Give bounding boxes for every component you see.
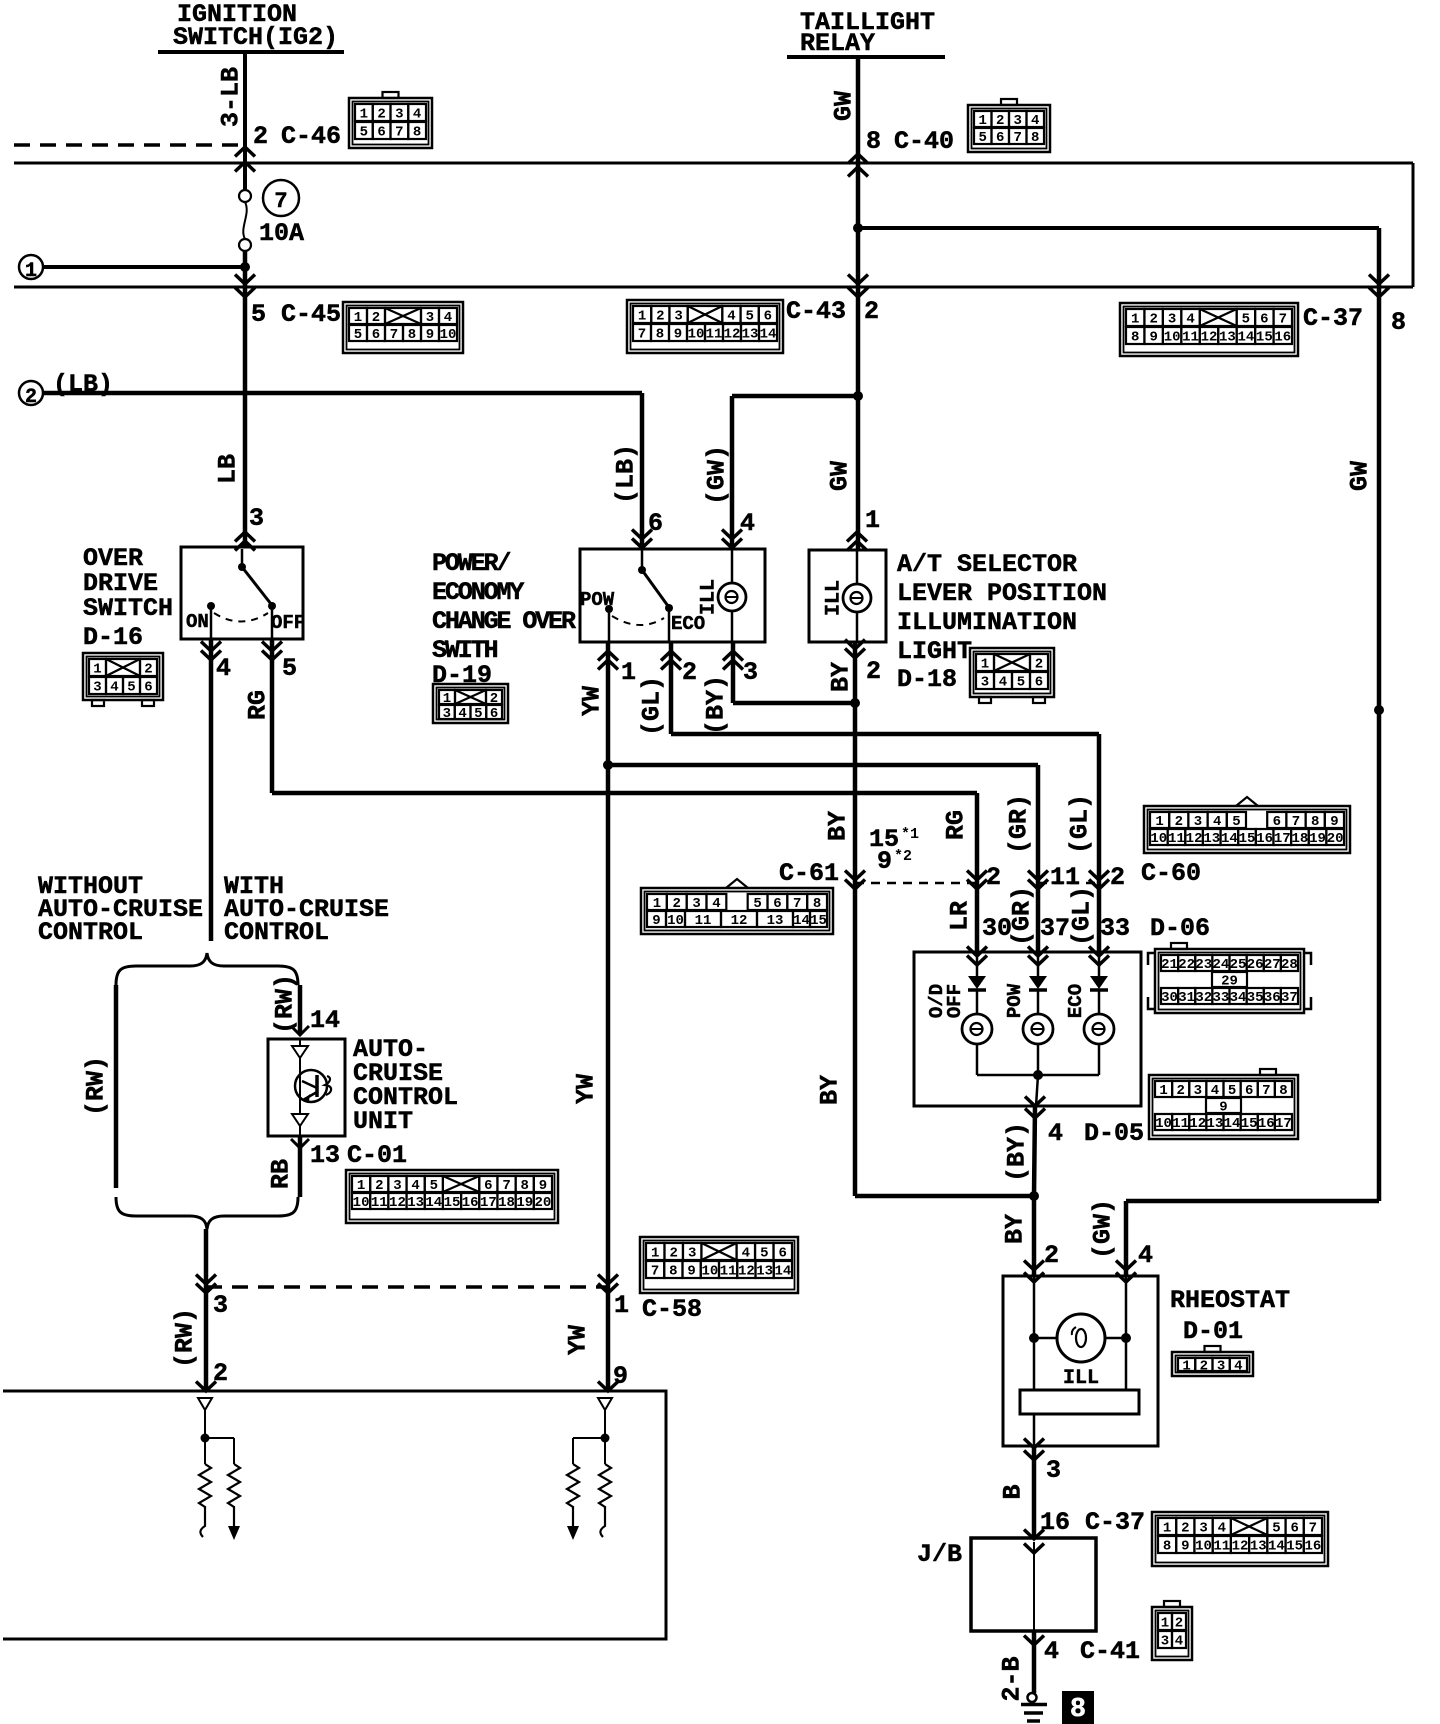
svg-text:POW: POW — [580, 589, 615, 611]
svg-text:POWER/: POWER/ — [432, 549, 511, 578]
svg-text:D-16: D-16 — [83, 623, 143, 652]
svg-text:GW: GW — [830, 91, 859, 121]
svg-text:7: 7 — [274, 189, 287, 214]
svg-text:16: 16 — [1304, 1539, 1321, 1555]
svg-text:3: 3 — [981, 675, 989, 691]
svg-text:3: 3 — [395, 107, 403, 123]
svg-text:YW: YW — [572, 1074, 601, 1104]
svg-text:4: 4 — [444, 310, 452, 326]
svg-text:4: 4 — [1048, 1119, 1063, 1148]
svg-text:2: 2 — [1176, 1083, 1184, 1099]
svg-text:30: 30 — [1161, 990, 1178, 1006]
svg-text:1: 1 — [1155, 814, 1163, 830]
svg-text:13: 13 — [1219, 330, 1236, 346]
svg-text:17: 17 — [1275, 1116, 1292, 1132]
svg-text:25: 25 — [1230, 957, 1247, 973]
svg-text:6: 6 — [764, 309, 772, 325]
svg-text:(LB): (LB) — [612, 444, 641, 504]
svg-text:2: 2 — [670, 1246, 678, 1262]
svg-text:CONTROL: CONTROL — [38, 918, 143, 947]
svg-text:4: 4 — [216, 654, 231, 683]
svg-text:3: 3 — [93, 680, 101, 696]
svg-text:13: 13 — [1250, 1539, 1267, 1555]
svg-text:35: 35 — [1247, 990, 1264, 1006]
svg-text:4: 4 — [1234, 1359, 1242, 1375]
svg-text:1: 1 — [865, 506, 880, 535]
svg-text:14: 14 — [774, 1264, 791, 1280]
svg-text:6: 6 — [377, 125, 385, 141]
svg-text:6: 6 — [490, 706, 498, 722]
svg-text:3: 3 — [443, 706, 451, 722]
svg-text:5: 5 — [360, 125, 368, 141]
svg-text:27: 27 — [1264, 957, 1281, 973]
svg-text:12: 12 — [1201, 330, 1218, 346]
svg-text:8: 8 — [1131, 330, 1139, 346]
svg-text:8: 8 — [408, 327, 416, 343]
svg-text:8: 8 — [1311, 814, 1319, 830]
svg-text:2: 2 — [144, 662, 152, 678]
svg-text:11: 11 — [1213, 1539, 1230, 1555]
svg-text:(RW): (RW) — [271, 974, 300, 1034]
svg-text:4: 4 — [1186, 312, 1194, 328]
svg-text:ILL: ILL — [823, 580, 846, 616]
svg-text:2: 2 — [25, 386, 37, 409]
svg-text:(GW): (GW) — [703, 445, 732, 505]
svg-text:YW: YW — [564, 1325, 593, 1355]
svg-text:3: 3 — [674, 309, 682, 325]
svg-text:10A: 10A — [259, 219, 304, 248]
svg-text:15: 15 — [1241, 1116, 1258, 1132]
svg-text:7: 7 — [1262, 1083, 1270, 1099]
svg-text:3: 3 — [1046, 1456, 1061, 1485]
svg-text:2: 2 — [253, 122, 268, 151]
svg-text:10: 10 — [1195, 1539, 1212, 1555]
svg-text:32: 32 — [1195, 990, 1212, 1006]
svg-text:1: 1 — [651, 1246, 659, 1262]
svg-text:LIGHT: LIGHT — [897, 637, 972, 666]
svg-text:14: 14 — [793, 913, 810, 929]
svg-text:BY: BY — [1001, 1214, 1030, 1244]
svg-text:4: 4 — [1044, 1637, 1059, 1666]
svg-text:SWITCH: SWITCH — [83, 594, 173, 623]
svg-text:4: 4 — [1175, 1634, 1183, 1650]
svg-text:19: 19 — [1309, 831, 1326, 847]
svg-text:5: 5 — [127, 680, 135, 696]
svg-text:13: 13 — [1207, 1116, 1224, 1132]
svg-text:3: 3 — [393, 1178, 401, 1194]
svg-text:ON: ON — [186, 611, 209, 633]
svg-text:15: 15 — [1256, 330, 1273, 346]
svg-text:7: 7 — [793, 896, 801, 912]
svg-text:(RW): (RW) — [82, 1056, 111, 1116]
svg-text:15: 15 — [444, 1195, 461, 1211]
svg-text:3: 3 — [1194, 1083, 1202, 1099]
svg-text:14: 14 — [1221, 831, 1238, 847]
svg-text:1: 1 — [1163, 1521, 1171, 1537]
svg-text:2: 2 — [656, 309, 664, 325]
svg-text:6: 6 — [779, 1246, 787, 1262]
svg-text:5: 5 — [354, 327, 362, 343]
svg-text:(RW): (RW) — [171, 1308, 200, 1368]
svg-text:5: 5 — [1272, 1521, 1280, 1537]
svg-text:9: 9 — [1181, 1539, 1189, 1555]
svg-text:6: 6 — [1260, 312, 1268, 328]
svg-text:16: 16 — [1274, 330, 1291, 346]
svg-text:9: 9 — [877, 847, 892, 876]
svg-text:5: 5 — [745, 309, 753, 325]
svg-text:11: 11 — [695, 913, 712, 929]
svg-text:C-58: C-58 — [642, 1295, 702, 1324]
svg-text:37: 37 — [1040, 914, 1070, 943]
svg-text:8: 8 — [1031, 130, 1039, 146]
svg-text:1: 1 — [1182, 1359, 1190, 1375]
svg-text:5: 5 — [753, 896, 761, 912]
svg-text:15: 15 — [1286, 1539, 1303, 1555]
svg-text:2: 2 — [1110, 863, 1125, 892]
svg-text:(GL): (GL) — [1068, 886, 1097, 946]
svg-text:8: 8 — [813, 896, 821, 912]
svg-text:1: 1 — [653, 896, 661, 912]
svg-text:15: 15 — [810, 913, 827, 929]
svg-text:3: 3 — [743, 658, 758, 687]
svg-text:5: 5 — [474, 706, 482, 722]
svg-text:C-60: C-60 — [1141, 859, 1201, 888]
svg-text:14: 14 — [1237, 330, 1254, 346]
svg-text:5: 5 — [1232, 814, 1240, 830]
svg-text:5: 5 — [1228, 1083, 1236, 1099]
svg-text:C-40: C-40 — [894, 127, 954, 156]
svg-text:6: 6 — [996, 130, 1004, 146]
svg-text:17: 17 — [1274, 831, 1291, 847]
svg-text:1: 1 — [614, 1291, 629, 1320]
svg-text:4: 4 — [1138, 1241, 1153, 1270]
svg-text:23: 23 — [1195, 957, 1212, 973]
svg-text:7: 7 — [1014, 130, 1022, 146]
svg-text:RG: RG — [942, 810, 971, 840]
svg-text:8: 8 — [866, 127, 881, 156]
svg-text:3: 3 — [1161, 1634, 1169, 1650]
svg-text:33: 33 — [1213, 990, 1230, 1006]
svg-text:RB: RB — [267, 1159, 296, 1189]
svg-text:11: 11 — [371, 1195, 388, 1211]
svg-text:7: 7 — [502, 1178, 510, 1194]
svg-text:(BY): (BY) — [1003, 1122, 1032, 1182]
svg-text:10: 10 — [440, 327, 457, 343]
svg-text:28: 28 — [1281, 957, 1298, 973]
svg-text:3: 3 — [213, 1291, 228, 1320]
svg-text:9: 9 — [1149, 330, 1157, 346]
svg-text:12: 12 — [731, 913, 748, 929]
svg-text:16: 16 — [1040, 1508, 1070, 1537]
svg-text:1: 1 — [1161, 1616, 1169, 1632]
svg-text:20: 20 — [535, 1195, 552, 1211]
svg-text:10: 10 — [1164, 330, 1181, 346]
svg-text:8: 8 — [413, 125, 421, 141]
svg-text:ECONOMY: ECONOMY — [432, 578, 524, 607]
svg-text:8: 8 — [1279, 1083, 1287, 1099]
svg-text:C-41: C-41 — [1080, 1637, 1140, 1666]
svg-text:22: 22 — [1178, 957, 1195, 973]
svg-text:8: 8 — [1070, 1695, 1086, 1724]
svg-text:16: 16 — [1258, 1116, 1275, 1132]
svg-text:30: 30 — [982, 914, 1012, 943]
svg-text:ILLUMINATION: ILLUMINATION — [897, 608, 1077, 637]
svg-text:C-37: C-37 — [1303, 304, 1363, 333]
svg-text:2: 2 — [375, 1178, 383, 1194]
svg-text:2: 2 — [673, 896, 681, 912]
svg-text:D-01: D-01 — [1183, 1317, 1243, 1346]
svg-text:1: 1 — [25, 260, 37, 283]
svg-text:18: 18 — [1292, 831, 1309, 847]
svg-text:9: 9 — [674, 327, 682, 343]
svg-text:33: 33 — [1100, 914, 1130, 943]
svg-text:4: 4 — [1211, 1083, 1219, 1099]
svg-text:GW: GW — [1346, 461, 1375, 491]
svg-text:D-19: D-19 — [432, 661, 492, 690]
svg-text:(GL): (GL) — [1066, 794, 1095, 854]
svg-text:5: 5 — [760, 1246, 768, 1262]
svg-text:D-06: D-06 — [1150, 914, 1210, 943]
svg-text:9: 9 — [426, 327, 434, 343]
svg-text:12: 12 — [1232, 1539, 1249, 1555]
svg-text:1: 1 — [357, 1178, 365, 1194]
svg-text:CONTROL: CONTROL — [224, 918, 329, 947]
svg-text:7: 7 — [1279, 312, 1287, 328]
svg-text:3-LB: 3-LB — [217, 67, 246, 127]
svg-text:5: 5 — [282, 654, 297, 683]
svg-text:10: 10 — [701, 1264, 718, 1280]
svg-text:BY: BY — [816, 1075, 845, 1105]
svg-text:3: 3 — [426, 310, 434, 326]
svg-text:(GL): (GL) — [638, 676, 667, 736]
svg-text:ILL: ILL — [1063, 1367, 1099, 1390]
svg-text:1: 1 — [1131, 312, 1139, 328]
svg-text:1: 1 — [93, 662, 101, 678]
svg-text:4: 4 — [712, 896, 720, 912]
svg-text:BY: BY — [824, 811, 853, 841]
svg-text:12: 12 — [1189, 1116, 1206, 1132]
svg-text:B: B — [999, 1484, 1028, 1499]
svg-text:6: 6 — [144, 680, 152, 696]
svg-text:10: 10 — [667, 913, 684, 929]
svg-text:3: 3 — [692, 896, 700, 912]
svg-text:13: 13 — [742, 327, 759, 343]
svg-text:7: 7 — [395, 125, 403, 141]
svg-text:8: 8 — [1163, 1539, 1171, 1555]
svg-text:6: 6 — [1273, 814, 1281, 830]
svg-text:7: 7 — [1309, 1521, 1317, 1537]
svg-text:4: 4 — [458, 706, 466, 722]
svg-text:ILL: ILL — [698, 579, 721, 615]
svg-text:7: 7 — [1292, 814, 1300, 830]
svg-text:C-01: C-01 — [347, 1141, 407, 1170]
svg-text:*2: *2 — [894, 848, 912, 865]
svg-text:2: 2 — [864, 297, 879, 326]
svg-text:5: 5 — [979, 130, 987, 146]
svg-text:14: 14 — [310, 1006, 340, 1035]
svg-text:34: 34 — [1230, 990, 1247, 1006]
svg-text:(GR): (GR) — [1005, 794, 1034, 854]
svg-text:11: 11 — [1168, 831, 1185, 847]
svg-text:5: 5 — [1242, 312, 1250, 328]
svg-text:3: 3 — [249, 504, 264, 533]
svg-text:2: 2 — [1200, 1359, 1208, 1375]
svg-text:31: 31 — [1178, 990, 1195, 1006]
svg-text:10: 10 — [688, 327, 705, 343]
svg-text:4: 4 — [110, 680, 118, 696]
svg-text:2: 2 — [372, 310, 380, 326]
svg-text:10: 10 — [353, 1195, 370, 1211]
svg-text:21: 21 — [1161, 957, 1178, 973]
svg-text:A/T SELECTOR: A/T SELECTOR — [897, 550, 1077, 579]
svg-text:4: 4 — [1218, 1521, 1226, 1537]
svg-text:J/B: J/B — [917, 1540, 962, 1569]
svg-text:LB: LB — [214, 454, 243, 484]
svg-text:12: 12 — [724, 327, 741, 343]
svg-text:3: 3 — [1199, 1521, 1207, 1537]
svg-text:24: 24 — [1213, 957, 1230, 973]
svg-text:6: 6 — [484, 1178, 492, 1194]
svg-text:6: 6 — [1035, 675, 1043, 691]
svg-text:5: 5 — [430, 1178, 438, 1194]
svg-text:CHANGE OVER: CHANGE OVER — [432, 607, 576, 636]
svg-text:GW: GW — [826, 461, 855, 491]
svg-text:11: 11 — [1172, 1116, 1189, 1132]
svg-text:18: 18 — [498, 1195, 515, 1211]
svg-text:SWITCH(IG2): SWITCH(IG2) — [173, 23, 338, 52]
svg-text:C-43: C-43 — [786, 297, 846, 326]
svg-text:6: 6 — [773, 896, 781, 912]
svg-text:C-46: C-46 — [281, 122, 341, 151]
svg-text:20: 20 — [1327, 831, 1344, 847]
svg-text:1: 1 — [981, 657, 989, 673]
svg-text:1: 1 — [1159, 1083, 1167, 1099]
svg-text:14: 14 — [425, 1195, 442, 1211]
svg-text:8: 8 — [669, 1264, 677, 1280]
svg-text:POW: POW — [1004, 983, 1026, 1018]
svg-text:4: 4 — [999, 675, 1007, 691]
svg-text:2: 2 — [866, 657, 881, 686]
svg-text:12: 12 — [738, 1264, 755, 1280]
svg-text:15: 15 — [1239, 831, 1256, 847]
svg-text:3: 3 — [1194, 814, 1202, 830]
svg-text:1: 1 — [621, 658, 636, 687]
svg-text:5: 5 — [251, 300, 266, 329]
svg-text:4: 4 — [1031, 113, 1039, 129]
svg-text:4: 4 — [413, 107, 421, 123]
svg-text:3: 3 — [688, 1246, 696, 1262]
svg-text:2-B: 2-B — [998, 1656, 1027, 1701]
svg-text:9: 9 — [687, 1264, 695, 1280]
svg-text:OFF: OFF — [944, 984, 966, 1018]
svg-text:14: 14 — [1224, 1116, 1241, 1132]
svg-text:OFF: OFF — [271, 612, 305, 634]
svg-text:4: 4 — [1213, 814, 1221, 830]
svg-text:RELAY: RELAY — [800, 29, 875, 58]
svg-text:16: 16 — [462, 1195, 479, 1211]
svg-text:LEVER POSITION: LEVER POSITION — [897, 579, 1107, 608]
svg-text:2: 2 — [996, 113, 1004, 129]
svg-text:C-61: C-61 — [779, 859, 839, 888]
svg-text:1: 1 — [360, 107, 368, 123]
svg-text:26: 26 — [1247, 957, 1264, 973]
svg-text:3: 3 — [1168, 312, 1176, 328]
svg-text:7: 7 — [638, 327, 646, 343]
svg-text:2: 2 — [1181, 1521, 1189, 1537]
svg-text:4: 4 — [740, 509, 755, 538]
svg-text:RG: RG — [244, 690, 273, 720]
svg-text:1: 1 — [354, 310, 362, 326]
svg-text:7: 7 — [390, 327, 398, 343]
svg-text:YW: YW — [578, 686, 607, 716]
svg-text:ECO: ECO — [671, 613, 705, 635]
svg-text:4: 4 — [727, 309, 735, 325]
svg-text:D-18: D-18 — [897, 665, 957, 694]
svg-text:2: 2 — [986, 863, 1001, 892]
svg-text:2: 2 — [1175, 814, 1183, 830]
svg-text:4: 4 — [742, 1246, 750, 1262]
svg-text:5: 5 — [1017, 675, 1025, 691]
svg-text:8: 8 — [521, 1178, 529, 1194]
svg-text:8: 8 — [656, 327, 664, 343]
svg-text:LR: LR — [946, 901, 975, 931]
svg-text:RHEOSTAT: RHEOSTAT — [1170, 1286, 1290, 1315]
svg-text:14: 14 — [1268, 1539, 1285, 1555]
svg-text:(BY): (BY) — [702, 675, 731, 735]
svg-text:C-45: C-45 — [281, 300, 341, 329]
svg-text:3: 3 — [1014, 113, 1022, 129]
svg-text:12: 12 — [389, 1195, 406, 1211]
svg-text:13: 13 — [407, 1195, 424, 1211]
svg-text:37: 37 — [1281, 990, 1298, 1006]
svg-text:D-05: D-05 — [1084, 1119, 1144, 1148]
svg-text:9: 9 — [652, 913, 660, 929]
svg-text:1: 1 — [638, 309, 646, 325]
svg-text:9: 9 — [1330, 814, 1338, 830]
svg-text:7: 7 — [651, 1264, 659, 1280]
svg-text:(GW): (GW) — [1089, 1199, 1118, 1259]
svg-text:1: 1 — [979, 113, 987, 129]
svg-text:11: 11 — [706, 327, 723, 343]
svg-text:12: 12 — [1186, 831, 1203, 847]
svg-text:2: 2 — [1175, 1616, 1183, 1632]
svg-text:6: 6 — [1290, 1521, 1298, 1537]
svg-text:3: 3 — [1217, 1359, 1225, 1375]
svg-text:36: 36 — [1264, 990, 1281, 1006]
svg-text:10: 10 — [1150, 831, 1167, 847]
svg-text:17: 17 — [480, 1195, 497, 1211]
svg-text:10: 10 — [1155, 1116, 1172, 1132]
svg-text:2: 2 — [1035, 657, 1043, 673]
svg-text:9: 9 — [539, 1178, 547, 1194]
svg-text:4: 4 — [411, 1178, 419, 1194]
svg-text:9: 9 — [613, 1362, 628, 1391]
svg-text:BY: BY — [827, 662, 856, 692]
svg-text:13: 13 — [756, 1264, 773, 1280]
svg-text:2: 2 — [1149, 312, 1157, 328]
svg-text:ECO: ECO — [1065, 984, 1087, 1018]
svg-text:6: 6 — [372, 327, 380, 343]
svg-text:13: 13 — [1203, 831, 1220, 847]
svg-text:2: 2 — [1044, 1241, 1059, 1270]
svg-text:C-37: C-37 — [1085, 1508, 1145, 1537]
svg-text:*1: *1 — [901, 826, 919, 843]
svg-text:14: 14 — [760, 327, 777, 343]
svg-text:13: 13 — [767, 913, 784, 929]
svg-text:11: 11 — [720, 1264, 737, 1280]
svg-text:16: 16 — [1256, 831, 1273, 847]
svg-text:2: 2 — [377, 107, 385, 123]
